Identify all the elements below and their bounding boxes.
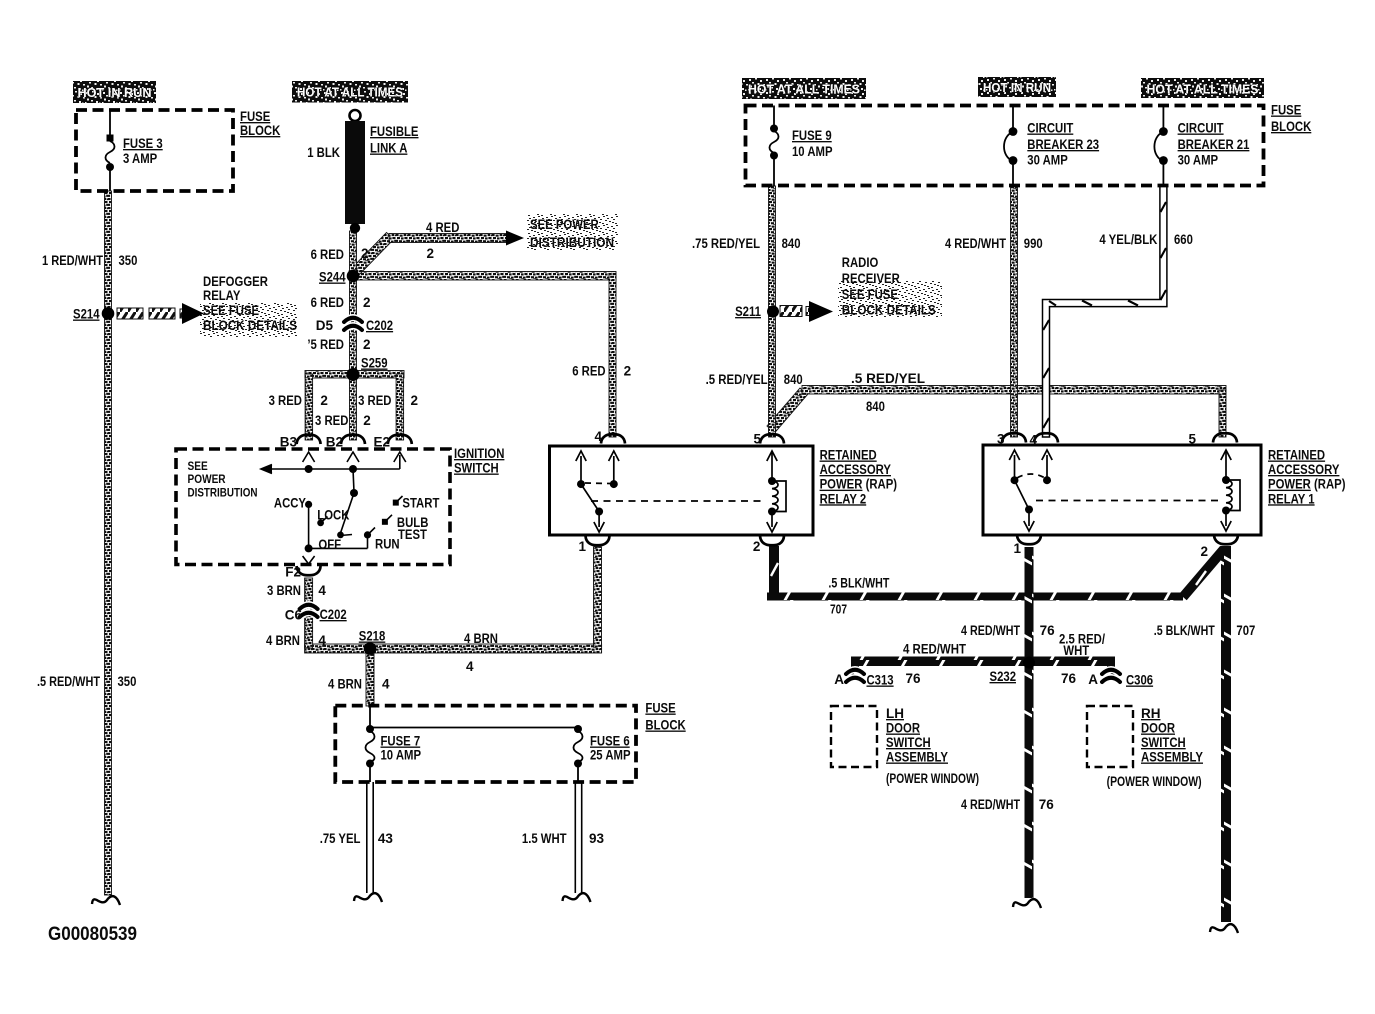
svg-text:76: 76: [1040, 623, 1056, 638]
svg-text:FUSIBLE: FUSIBLE: [370, 124, 419, 139]
svg-text:2: 2: [624, 364, 632, 379]
svg-text:25 AMP: 25 AMP: [590, 748, 631, 763]
svg-text:E2: E2: [373, 435, 390, 450]
svg-text:93: 93: [589, 831, 605, 846]
svg-text:(POWER WINDOW): (POWER WINDOW): [1107, 774, 1202, 789]
svg-text:43: 43: [378, 831, 394, 846]
svg-text:DOOR: DOOR: [1141, 721, 1175, 736]
svg-text:HOT AT ALL TIMES: HOT AT ALL TIMES: [1147, 83, 1259, 97]
svg-text:.5 RED/YEL: .5 RED/YEL: [851, 371, 925, 386]
svg-text:3 RED: 3 RED: [358, 393, 392, 408]
svg-text:WHT: WHT: [1063, 643, 1089, 658]
svg-text:POWER (RAP): POWER (RAP): [820, 477, 898, 492]
svg-text:.5 RED/WHT: .5 RED/WHT: [37, 674, 101, 689]
svg-text:ACCY: ACCY: [274, 496, 306, 511]
svg-text:LH: LH: [886, 706, 904, 721]
svg-text:3 RED: 3 RED: [269, 393, 303, 408]
svg-text:G00080539: G00080539: [48, 923, 137, 945]
svg-text:SEE FUSE: SEE FUSE: [203, 303, 259, 318]
svg-text:SEE: SEE: [188, 459, 208, 473]
svg-text:10 AMP: 10 AMP: [381, 748, 422, 763]
svg-text:CIRCUIT: CIRCUIT: [1027, 121, 1074, 136]
svg-text:.75 RED/YEL: .75 RED/YEL: [692, 236, 760, 251]
svg-text:HOT IN RUN: HOT IN RUN: [983, 81, 1051, 95]
svg-text:840: 840: [784, 372, 803, 387]
svg-text:76: 76: [1039, 797, 1055, 812]
svg-text:6 RED: 6 RED: [311, 295, 345, 310]
svg-text:.5 BLK/WHT: .5 BLK/WHT: [1154, 623, 1216, 638]
svg-text:RELAY 2: RELAY 2: [820, 491, 867, 506]
svg-text:RELAY 1: RELAY 1: [1268, 491, 1315, 506]
svg-text:840: 840: [782, 236, 801, 251]
svg-text:4: 4: [466, 659, 474, 674]
svg-text:5: 5: [1188, 432, 1196, 447]
svg-text:BLOCK: BLOCK: [645, 718, 686, 733]
svg-text:2: 2: [753, 539, 761, 554]
svg-text:FUSE 3: FUSE 3: [123, 136, 163, 151]
svg-text:RUN: RUN: [375, 537, 400, 552]
svg-text:BLOCK: BLOCK: [240, 123, 281, 138]
svg-text:4: 4: [382, 677, 390, 692]
svg-text:2: 2: [1200, 544, 1208, 559]
svg-text:350: 350: [118, 674, 137, 689]
svg-text:RELAY: RELAY: [203, 288, 240, 303]
svg-text:350: 350: [119, 253, 138, 268]
svg-text:4 BRN: 4 BRN: [328, 677, 362, 692]
svg-text:FUSE: FUSE: [1271, 103, 1301, 118]
svg-text:1: 1: [578, 539, 586, 554]
svg-text:4: 4: [318, 633, 326, 648]
svg-text:S244: S244: [319, 270, 346, 285]
svg-text:4 RED: 4 RED: [426, 220, 460, 235]
svg-text:2: 2: [320, 393, 328, 408]
svg-text:4: 4: [594, 429, 602, 444]
svg-text:SEE FUSE: SEE FUSE: [842, 287, 898, 302]
svg-text:SWITCH: SWITCH: [454, 461, 499, 476]
svg-text:C306: C306: [1126, 673, 1154, 688]
svg-text:2: 2: [363, 337, 371, 352]
svg-text:S211: S211: [735, 304, 761, 319]
svg-text:SWITCH: SWITCH: [886, 735, 931, 750]
svg-text:HOT IN RUN: HOT IN RUN: [78, 86, 152, 100]
svg-text:4 YEL/BLK: 4 YEL/BLK: [1099, 232, 1157, 247]
svg-text:2: 2: [363, 413, 371, 428]
svg-text:DEFOGGER: DEFOGGER: [203, 274, 268, 289]
svg-text:S259: S259: [361, 356, 388, 371]
svg-text:4 RED/WHT: 4 RED/WHT: [961, 797, 1021, 812]
svg-text:B2: B2: [326, 435, 343, 450]
svg-text:6 RED: 6 RED: [572, 364, 606, 379]
svg-text:C313: C313: [867, 673, 895, 688]
svg-text:ASSEMBLY: ASSEMBLY: [1141, 750, 1203, 765]
svg-text:660: 660: [1174, 232, 1193, 247]
svg-text:FUSE: FUSE: [240, 109, 270, 124]
svg-text:BREAKER 23: BREAKER 23: [1027, 137, 1099, 152]
svg-text:DOOR: DOOR: [886, 721, 920, 736]
svg-text:.5 RED/YEL: .5 RED/YEL: [706, 372, 768, 387]
svg-text:RECEIVER: RECEIVER: [842, 271, 900, 286]
svg-text:C6: C6: [285, 608, 303, 623]
svg-text:4 BRN: 4 BRN: [266, 633, 300, 648]
svg-text:D5: D5: [316, 318, 334, 333]
svg-text:TEST: TEST: [398, 527, 428, 542]
svg-text:CIRCUIT: CIRCUIT: [1178, 121, 1225, 136]
svg-text:HOT AT ALL TIMES: HOT AT ALL TIMES: [297, 86, 403, 100]
svg-text:LINK A: LINK A: [370, 141, 408, 156]
svg-text:HOT AT ALL TIMES: HOT AT ALL TIMES: [748, 83, 860, 97]
svg-text:SEE POWER: SEE POWER: [530, 217, 599, 232]
svg-text:30 AMP: 30 AMP: [1027, 153, 1068, 168]
svg-text:A: A: [1088, 672, 1098, 687]
svg-text:840: 840: [866, 399, 885, 414]
svg-text:RH: RH: [1141, 706, 1161, 721]
svg-text:707: 707: [830, 603, 847, 617]
svg-text:F2: F2: [285, 565, 301, 580]
svg-text:4 BRN: 4 BRN: [464, 631, 498, 646]
svg-text:START: START: [402, 496, 440, 511]
svg-text:1: 1: [1013, 541, 1021, 556]
svg-text:FUSE 7: FUSE 7: [381, 734, 421, 749]
svg-text:IGNITION: IGNITION: [454, 446, 504, 461]
svg-text:2: 2: [363, 295, 371, 310]
svg-text:A: A: [834, 672, 844, 687]
svg-text:POWER: POWER: [188, 472, 226, 486]
svg-text:5: 5: [753, 432, 761, 447]
svg-text:RADIO: RADIO: [842, 255, 879, 270]
svg-text:2: 2: [427, 246, 435, 261]
svg-text:76: 76: [906, 671, 922, 686]
svg-text:RETAINED: RETAINED: [1268, 448, 1325, 463]
svg-text:1 BLK: 1 BLK: [307, 145, 340, 160]
svg-text:C202: C202: [320, 607, 347, 622]
svg-text:10 AMP: 10 AMP: [792, 144, 833, 159]
svg-text:2: 2: [361, 246, 369, 261]
svg-text:’5 RED: ’5 RED: [307, 337, 344, 352]
svg-text:S232: S232: [990, 669, 1017, 684]
svg-text:3 AMP: 3 AMP: [123, 151, 157, 166]
svg-text:3 RED: 3 RED: [315, 413, 349, 428]
svg-text:4: 4: [1029, 433, 1037, 448]
svg-text:ACCESSORY: ACCESSORY: [820, 462, 891, 477]
svg-text:3: 3: [997, 432, 1005, 447]
svg-text:30 AMP: 30 AMP: [1178, 153, 1219, 168]
svg-text:76: 76: [1061, 671, 1077, 686]
svg-text:6 RED: 6 RED: [311, 247, 345, 262]
svg-text:(POWER WINDOW): (POWER WINDOW): [886, 771, 979, 786]
svg-text:DISTRIBUTION: DISTRIBUTION: [530, 235, 614, 250]
svg-text:POWER (RAP): POWER (RAP): [1268, 477, 1346, 492]
svg-text:.75 YEL: .75 YEL: [320, 831, 361, 846]
svg-text:FUSE 9: FUSE 9: [792, 128, 832, 143]
svg-text:S218: S218: [359, 629, 386, 644]
svg-text:OFF: OFF: [318, 537, 341, 552]
svg-text:BREAKER 21: BREAKER 21: [1178, 137, 1250, 152]
svg-text:LOCK: LOCK: [317, 508, 349, 523]
svg-text:FUSE: FUSE: [645, 701, 675, 716]
svg-text:.5 BLK/WHT: .5 BLK/WHT: [828, 576, 890, 591]
svg-text:BLOCK DETAILS: BLOCK DETAILS: [203, 318, 297, 333]
svg-text:3 BRN: 3 BRN: [267, 583, 301, 598]
svg-text:FUSE 6: FUSE 6: [590, 734, 630, 749]
svg-text:ACCESSORY: ACCESSORY: [1268, 462, 1339, 477]
svg-text:ASSEMBLY: ASSEMBLY: [886, 750, 948, 765]
svg-text:1.5 WHT: 1.5 WHT: [522, 831, 567, 846]
svg-text:BLOCK DETAILS: BLOCK DETAILS: [842, 303, 936, 318]
svg-text:1 RED/WHT: 1 RED/WHT: [42, 253, 104, 268]
svg-text:4 RED/WHT: 4 RED/WHT: [961, 623, 1021, 638]
svg-text:2: 2: [411, 393, 419, 408]
svg-text:BLOCK: BLOCK: [1271, 119, 1312, 134]
svg-text:DISTRIBUTION: DISTRIBUTION: [188, 486, 258, 500]
svg-text:707: 707: [1236, 623, 1255, 638]
svg-text:4: 4: [318, 583, 326, 598]
svg-text:990: 990: [1024, 236, 1043, 251]
svg-text:S214: S214: [73, 307, 100, 322]
svg-text:SWITCH: SWITCH: [1141, 735, 1186, 750]
svg-text:B3: B3: [280, 435, 298, 450]
svg-text:C202: C202: [366, 318, 393, 333]
svg-text:RETAINED: RETAINED: [820, 448, 877, 463]
svg-text:4 RED/WHT: 4 RED/WHT: [945, 236, 1007, 251]
svg-text:4 RED/WHT: 4 RED/WHT: [903, 642, 967, 657]
